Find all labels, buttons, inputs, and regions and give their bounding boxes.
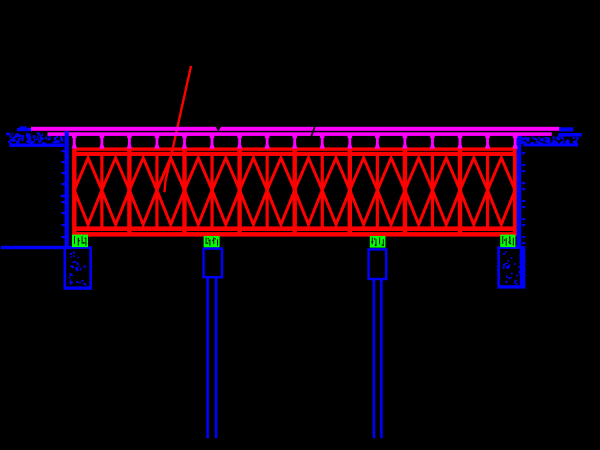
truss X-brace diamond panel 12: [377, 158, 405, 225]
deck guardrail post 6 (magenta): [210, 135, 215, 138]
deck guardrail post 4 (magenta): [155, 135, 160, 138]
deck guardrail post 8 (magenta): [265, 135, 270, 138]
truss X-brace diamond panel 11: [350, 158, 378, 225]
truss vertical post 4: [155, 153, 158, 228]
truss X-brace diamond panel 8: [267, 158, 295, 225]
left footing (blue outline, speckled): [65, 248, 91, 289]
deck lower slab line (magenta): [48, 132, 552, 136]
black diagonal break in deck lines: [311, 127, 315, 137]
truss X-brace diamond panel 6: [212, 158, 240, 225]
left approach bracket steps (blue): [17, 128, 32, 131]
pier 2 pile right line: [380, 279, 383, 438]
truss vertical post 5: [182, 149, 186, 237]
deck top slab line (magenta): [31, 127, 559, 131]
right wall hatch ticks: [522, 152, 525, 154]
right bracket hatch speckles: [538, 142, 541, 144]
truss bottom chord lower line: [74, 232, 516, 237]
truss X-brace diamond panel 14: [433, 158, 461, 225]
deck guardrail post 7 (magenta): [237, 135, 242, 138]
deck guardrail post 2 (magenta): [100, 135, 105, 138]
deck guardrail post 16 (magenta): [485, 135, 490, 138]
truss vertical post 3: [127, 149, 131, 237]
right footing (blue outline, speckled): [499, 248, 524, 288]
pier 1 pile left line: [206, 277, 209, 438]
deck guardrail post 11 (magenta): [348, 135, 353, 138]
truss vertical post 1: [72, 149, 76, 237]
truss vertical post 10: [321, 153, 324, 228]
pier 2 bearing block (blue outline): [369, 249, 387, 279]
truss X-brace diamond panel 2: [102, 158, 130, 225]
pier 2 bearing pad (green, striped hatch): [370, 236, 386, 248]
deck guardrail post 1 (magenta): [72, 135, 77, 138]
truss vertical post 13: [403, 149, 407, 237]
truss X-brace diamond panel 1: [74, 158, 102, 225]
truss X-brace diamond panel 16: [488, 158, 515, 225]
right bearing pad (green, striped hatch): [500, 235, 515, 248]
deck guardrail post 5 (magenta): [182, 135, 187, 138]
right bracket bottom line: [523, 143, 578, 146]
truss vertical post 2: [100, 153, 103, 228]
ground line at left abutment: [1, 246, 72, 249]
pier 1 pile right line: [215, 277, 218, 438]
left wall hatch ticks: [61, 150, 64, 152]
truss vertical post 8: [266, 153, 269, 228]
truss vertical post 7: [237, 149, 241, 237]
right abutment wall (blue): [517, 134, 522, 247]
deck guardrail post 14 (magenta): [430, 135, 435, 138]
truss X-brace diamond panel 13: [405, 158, 433, 225]
deck guardrail post 13 (magenta): [403, 135, 408, 138]
deck guardrail post 3 (magenta): [127, 135, 132, 138]
truss vertical post 6: [210, 153, 213, 228]
truss vertical post 9: [293, 149, 297, 237]
truss vertical post 15: [458, 149, 462, 237]
truss X-brace diamond panel 10: [322, 158, 350, 225]
truss X-brace diamond panel 15: [460, 158, 488, 225]
truss X-brace diamond panel 7: [240, 158, 268, 225]
truss X-brace diamond panel 5: [185, 158, 213, 225]
truss X-brace diamond panel 4: [157, 158, 185, 225]
truss vertical post 14: [431, 153, 434, 228]
truss vertical post 17: [513, 149, 517, 237]
truss top chord upper line: [74, 147, 516, 150]
pier 2 pile left line: [373, 279, 376, 438]
truss X-brace diamond panel 9: [295, 158, 323, 225]
red leader line with hook: [165, 66, 192, 192]
left abutment wall (blue): [65, 131, 69, 247]
left bearing pad (green, striped hatch): [72, 235, 88, 248]
deck guardrail post 9 (magenta): [292, 135, 297, 138]
left bracket hatch speckles: [26, 134, 28, 136]
pier 1 bearing block (blue outline): [204, 249, 222, 278]
deck guardrail post 12 (magenta): [375, 135, 380, 138]
truss vertical post 11: [348, 149, 352, 237]
deck guardrail post 10 (magenta): [320, 135, 325, 138]
truss bottom chord upper line: [74, 226, 516, 231]
deck guardrail post 15 (magenta): [458, 135, 463, 138]
truss X-brace diamond panel 3: [129, 158, 157, 225]
black tick notch on deck line: [216, 127, 221, 132]
deck guardrail post 17 (magenta): [513, 135, 518, 138]
truss vertical post 16: [486, 153, 489, 228]
pier 1 bearing pad (green, striped hatch): [204, 236, 220, 247]
truss top chord lower line: [74, 152, 516, 156]
truss vertical post 12: [376, 153, 379, 228]
right approach bracket steps (blue): [559, 127, 573, 131]
left bracket bottom line: [9, 144, 64, 147]
